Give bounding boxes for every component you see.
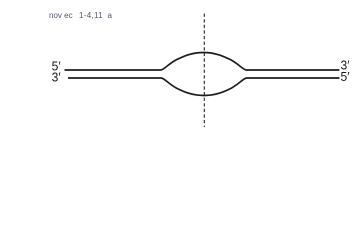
svg-text:3′: 3′ [52,69,61,84]
svg-text:5′: 5′ [341,69,350,84]
